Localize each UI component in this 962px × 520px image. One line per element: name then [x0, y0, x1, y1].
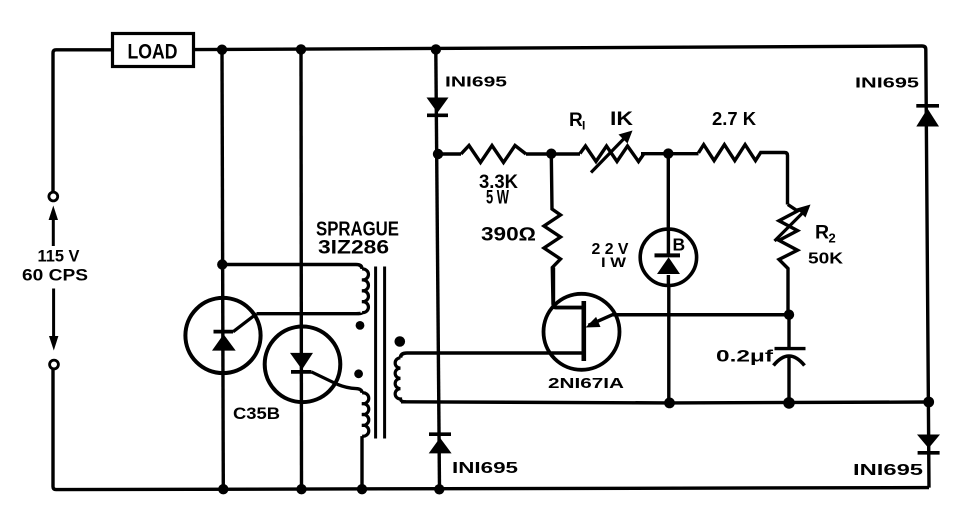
svg-text:3IZ286: 3IZ286	[318, 238, 389, 259]
diode 1N1695 bottom-left D3	[429, 434, 452, 453]
ujt emitter arrowhead	[586, 317, 601, 328]
node top rail / SCR1	[217, 45, 227, 55]
svg-text:R: R	[815, 222, 829, 244]
arrow up to upper terminal	[49, 206, 58, 247]
svg-text:390Ω: 390Ω	[481, 225, 536, 246]
svg-text:IK: IK	[610, 109, 633, 130]
node winding tap	[217, 259, 227, 269]
node bottom rail / winding	[357, 484, 367, 494]
terminal upper	[49, 192, 58, 201]
resistor 3.3K	[461, 146, 526, 163]
wire primary top winding tap	[222, 265, 362, 270]
resistor R1 1K variable	[580, 131, 644, 173]
node top rail / SCR2	[296, 44, 306, 54]
svg-text:2: 2	[829, 231, 836, 246]
wire DC bus y=154	[438, 152, 699, 156]
svg-text:50K: 50K	[808, 251, 844, 268]
polarity dot secondary	[395, 336, 406, 347]
node emitter / R2 / cap	[784, 310, 794, 320]
wire SCR2 branch vertical x=301	[299, 49, 303, 489]
wire rectifier branch vertical x=438	[436, 49, 440, 489]
svg-text:I: I	[582, 119, 585, 133]
zener diode circle B 22V	[640, 229, 696, 285]
node bus / 390	[546, 149, 556, 159]
node bus left	[433, 149, 443, 159]
svg-text:2NI67IA: 2NI67IA	[548, 375, 624, 392]
transistor 2N1671A UJT	[544, 268, 620, 370]
wire SCR2 gate to bottom winding	[337, 384, 362, 393]
diode 1N1695 top-left D1	[427, 98, 449, 116]
diode 1N1695 top-right D2	[916, 106, 939, 127]
polarity dot primary top	[356, 321, 365, 330]
wire SCR1 branch vertical x=222	[222, 50, 223, 490]
node mid rail / cap	[783, 397, 795, 409]
svg-text:I W: I W	[601, 254, 627, 270]
svg-text:B: B	[673, 235, 686, 255]
wire top rail left	[53, 50, 113, 193]
wire base1 / secondary top lead	[401, 353, 584, 358]
wire mid rail	[401, 402, 929, 403]
svg-text:C35B: C35B	[233, 405, 280, 423]
node bottom rail / SCR2	[296, 484, 306, 494]
wire bottom rail	[53, 369, 929, 490]
resistor R2 50K variable	[775, 205, 811, 315]
diode 1N1695 bottom-right D4	[917, 435, 940, 453]
svg-text:60 CPS: 60 CPS	[22, 266, 88, 285]
wire bottom winding to bottom rail	[360, 436, 363, 489]
transformer secondary winding	[395, 358, 406, 402]
svg-text:0.2μf: 0.2μf	[716, 347, 773, 366]
node mid rail / right branch	[923, 397, 934, 408]
capacitor 0.2uf	[774, 315, 806, 403]
resistor 390 ohm	[544, 154, 584, 308]
svg-text:5 W: 5 W	[486, 188, 509, 209]
svg-text:INI695: INI695	[445, 74, 507, 91]
svg-text:R: R	[569, 110, 583, 131]
transformer primary bottom winding	[362, 393, 369, 436]
SCR C35B left Q1	[185, 298, 260, 373]
wire winding to SCR1 gate	[257, 313, 363, 314]
svg-text:INI695: INI695	[452, 460, 518, 477]
node bottom rail / rectifier branch	[434, 484, 444, 494]
svg-text:LOAD: LOAD	[128, 41, 178, 64]
node bus / zener	[663, 148, 673, 158]
svg-text:INI695: INI695	[855, 75, 919, 92]
svg-text:2.7 K: 2.7 K	[712, 108, 757, 129]
svg-text:115 V: 115 V	[38, 248, 80, 266]
load box LOAD	[113, 34, 194, 67]
arrow down to lower terminal	[49, 289, 58, 351]
node top rail / rectifier branch	[431, 44, 441, 54]
transformer core	[376, 267, 385, 439]
wire emitter line	[589, 315, 790, 326]
node bottom rail / SCR1	[218, 484, 228, 494]
wire top rail	[194, 46, 930, 488]
wire zener to mid rail	[667, 285, 670, 402]
transformer primary top winding	[362, 269, 368, 313]
SCR right Q2	[265, 327, 341, 403]
wire zener branch	[667, 154, 670, 229]
resistor 2.7K	[699, 145, 788, 205]
terminal lower	[50, 360, 59, 369]
polarity dot primary bottom	[354, 369, 363, 378]
node mid rail / zener	[664, 398, 675, 409]
svg-text:INI695: INI695	[853, 462, 923, 479]
